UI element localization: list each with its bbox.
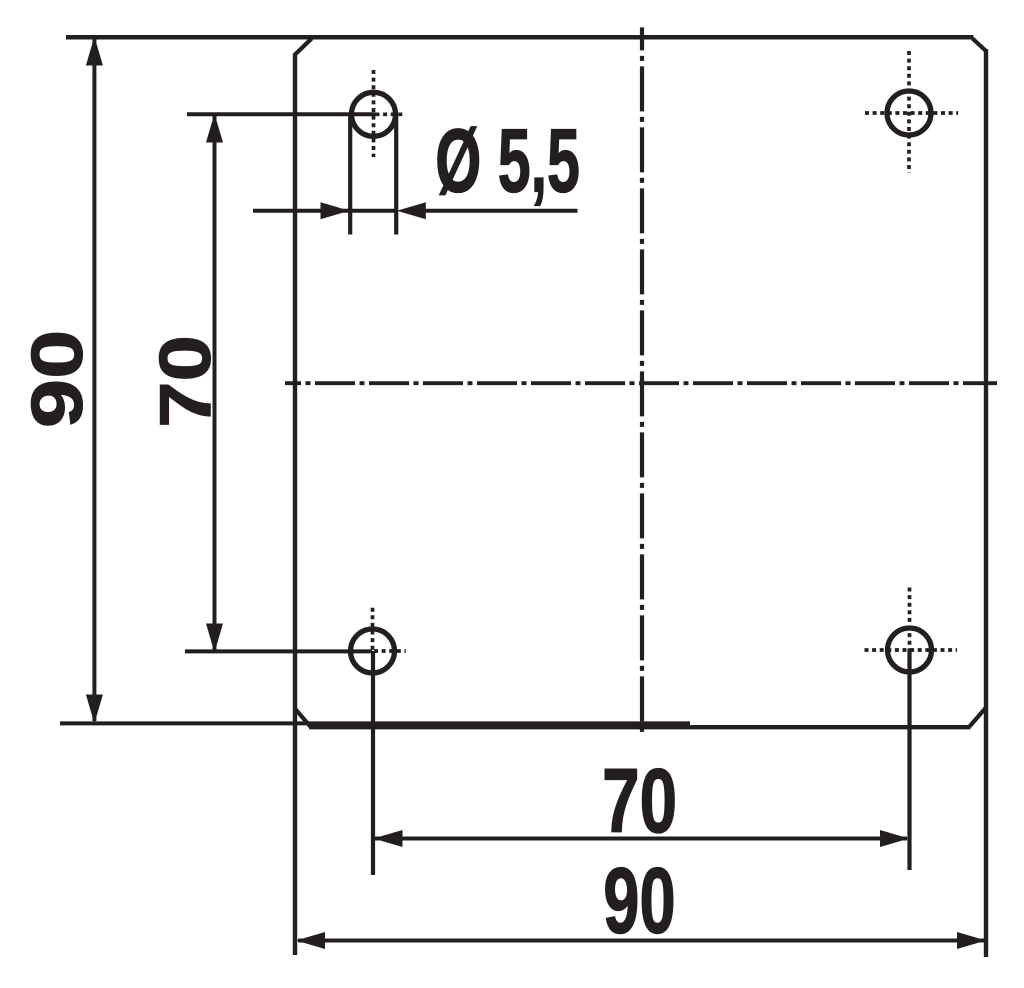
extension line below hole bottom-right (for bottom dim 70) [907, 650, 911, 870]
hole top-left vertical dotted centerline [372, 70, 376, 157]
plate right edge (extended below as extension line of bottom dim 90) [984, 49, 988, 957]
hole bottom-left horizontal dotted centerline (right stub) [374, 649, 406, 653]
hole bottom-right circle [888, 628, 932, 672]
arrowhead dim 90 bottom, left [296, 932, 325, 949]
plate bottom edge [309, 725, 971, 729]
arrowhead dim 5,5 pointing left [397, 202, 426, 219]
extension line below hole bottom-left (for bottom dim 70) [371, 651, 375, 875]
arrowhead dim 5,5 pointing right [321, 202, 350, 219]
dimension line 70 left (vertical) [213, 116, 217, 650]
dimension line 90 bottom (horizontal) [298, 939, 984, 943]
chamfer bottom-left [296, 709, 311, 726]
chamfer top-right [973, 39, 987, 52]
svg-text:70: 70 [144, 335, 226, 428]
extension line top of dim 70 left (through hole top-left center) [187, 112, 376, 116]
arrowhead dim 70 bottom, right [880, 830, 909, 847]
svg-text:Ø 5,5: Ø 5,5 [435, 111, 580, 212]
plate left edge (extended below as extension line of bottom dim 90) [293, 54, 297, 956]
dimension line diameter 5,5 right part [415, 209, 578, 213]
extension line bottom of dim 70 left (through hole bottom-left center) [185, 649, 372, 653]
extension line right of dim diameter 5,5 [394, 114, 398, 235]
svg-text:90: 90 [17, 330, 98, 429]
hole top-left circle [352, 92, 396, 136]
arrowhead dim 90 bottom, right [957, 932, 986, 949]
hole top-left horizontal dotted centerline (right stub) [376, 112, 406, 116]
vertical centerline of plate (dash-dot) [640, 27, 644, 737]
hole bottom-right horizontal dotted centerline [865, 648, 958, 652]
hole top-right circle [887, 91, 931, 135]
svg-text:90: 90 [603, 849, 675, 953]
hole top-right vertical dotted centerline [907, 51, 911, 173]
arrowhead dim 90 left, up [86, 37, 103, 66]
plate top edge (with left extension line of dim 90) [66, 35, 974, 40]
chamfer top-left [295, 39, 312, 55]
svg-text:70: 70 [602, 750, 677, 852]
arrowhead dim 70 left, up [206, 114, 223, 143]
extension line left of dim diameter 5,5 [348, 114, 352, 235]
dimension line 90 left (vertical) [92, 39, 96, 721]
hole bottom-right vertical dotted centerline (upper stub) [908, 588, 912, 651]
arrowhead dim 90 left, down [86, 695, 103, 724]
hole bottom-left vertical dotted centerline (upper stub) [371, 608, 375, 651]
extension line bottom of dim 90 left [60, 721, 690, 725]
chamfer bottom-right [970, 708, 987, 727]
arrowhead dim 70 left, down [206, 624, 223, 653]
horizontal centerline of plate (dash-dot) [285, 381, 997, 385]
dimension line 70 bottom (horizontal) [375, 837, 907, 841]
hole bottom-left circle [351, 629, 395, 673]
dimension line diameter 5,5 left part (continues between extension lines) [253, 209, 397, 213]
arrowhead dim 70 bottom, left [374, 830, 403, 847]
hole top-right horizontal dotted centerline [865, 111, 958, 115]
